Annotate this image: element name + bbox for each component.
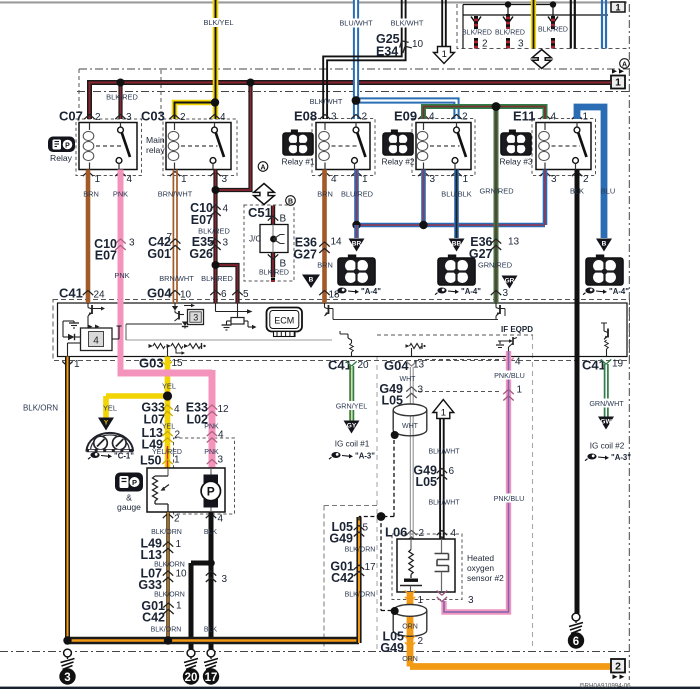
ECM driver box 3	[174, 303, 176, 306]
pin mark C41-20	[346, 361, 356, 366]
svg-text:3: 3	[331, 112, 337, 123]
svg-text:6: 6	[573, 636, 579, 648]
svg-text:IG coil #1: IG coil #1	[335, 440, 370, 449]
connector mark PNK-3	[207, 460, 217, 465]
wire BLK/RED branch to ECM-5	[216, 265, 238, 303]
svg-text:2: 2	[419, 528, 425, 539]
pin mark E11-1	[572, 115, 582, 120]
harness border bottom	[0, 651, 629, 653]
svg-text:G49: G49	[329, 532, 353, 546]
connector C10/E07-3 on PNK	[115, 239, 125, 244]
BLK/RED stub wire 2b	[506, 38, 510, 49]
fan motor icon 2	[448, 255, 455, 258]
svg-text:BLK/ORN: BLK/ORN	[345, 592, 376, 599]
wire BLK pair top-right	[570, 0, 572, 49]
relay E08 internals	[324, 123, 326, 131]
svg-text:G26: G26	[189, 247, 213, 261]
pin mark ECM-3	[491, 291, 501, 296]
svg-text:4: 4	[174, 404, 180, 415]
junction C03-3/bus drop	[212, 186, 220, 194]
wire BLK E11-2 to ground 6	[575, 170, 580, 614]
svg-text:gauge: gauge	[117, 502, 141, 512]
pin mark G04-10	[170, 291, 180, 296]
svg-text:10: 10	[180, 290, 192, 301]
svg-text:PNK: PNK	[204, 424, 219, 431]
wire GRN/RED overlay at crossover	[494, 218, 499, 232]
svg-text:3: 3	[126, 112, 132, 123]
box 2 orange end	[611, 659, 625, 673]
connector G01/C42-1	[163, 603, 173, 608]
circled A top-right	[620, 59, 630, 69]
svg-text:2: 2	[615, 661, 621, 673]
connector sensor-1 marks	[405, 597, 415, 602]
wire ORN sensor-1 out	[410, 592, 611, 667]
relay E09 box	[416, 123, 471, 170]
relay C03 internals	[174, 123, 176, 131]
pin mark E11-3	[540, 172, 550, 177]
page bottom rule	[0, 687, 700, 689]
double arrow updown C51	[254, 184, 275, 205]
svg-text:20: 20	[358, 360, 370, 371]
ECM dashed border	[53, 300, 630, 361]
svg-text:3: 3	[418, 385, 424, 396]
wire BLK/YEL feeder	[213, 0, 219, 119]
svg-text:C42: C42	[331, 571, 354, 585]
dashed box fuel pump assy	[174, 438, 235, 514]
connector L06-2 marks	[406, 531, 416, 536]
svg-text:4: 4	[127, 174, 133, 185]
combination meter icon	[87, 433, 134, 451]
svg-text:3: 3	[193, 312, 198, 322]
connector L07/G33-10	[163, 571, 173, 576]
connector sensor-3 marks	[437, 597, 447, 602]
ECM IG1 driver	[340, 334, 348, 338]
svg-text:17: 17	[365, 562, 377, 573]
eye ref IG1 A-3	[331, 452, 340, 458]
wire BLU/RED E11-3 down	[543, 170, 548, 226]
ground symbol 6	[572, 613, 580, 621]
harness border right vertical	[628, 4, 630, 680]
svg-text:BLK/RED: BLK/RED	[495, 29, 525, 36]
sensor heater resistor	[410, 539, 412, 550]
pin mark E09-1	[451, 172, 461, 177]
svg-text:B: B	[602, 241, 607, 248]
svg-text:G03: G03	[139, 356, 164, 371]
svg-text:"A-4": "A-4"	[461, 287, 481, 296]
svg-text:BLU/WHT: BLU/WHT	[339, 19, 373, 28]
wire BLK/RED C51	[271, 206, 275, 278]
harness border A top	[79, 68, 629, 70]
dashed box relay C07	[76, 119, 142, 176]
junction YEL	[163, 391, 172, 400]
junction BLU/WHT	[352, 96, 361, 105]
connector BLK-3 chevrons	[206, 571, 216, 576]
svg-text:4: 4	[93, 336, 99, 347]
relay C07 box	[79, 123, 137, 170]
junction fan bus at E09	[419, 221, 427, 229]
svg-text:1: 1	[74, 359, 80, 370]
wire PNK elbow to pump	[118, 370, 213, 468]
svg-text:3: 3	[518, 39, 524, 50]
pin mark E09-3	[418, 172, 428, 177]
pin mark E08-1	[351, 172, 361, 177]
wire BLK/YEL top-right	[531, 0, 536, 49]
sensor element	[441, 539, 443, 553]
svg-text:GRN/RED: GRN/RED	[479, 187, 513, 196]
ECM pin5 resistor to ground	[237, 303, 239, 318]
svg-text:BLK/ORN: BLK/ORN	[151, 627, 182, 634]
top-right bus line upper	[463, 4, 553, 6]
connector L13/L49-2 on YEL	[162, 432, 172, 437]
connector PNK/BLU-1	[503, 390, 513, 395]
svg-text:ORN: ORN	[402, 656, 418, 663]
svg-text:17: 17	[205, 672, 218, 684]
pin mark C03-2	[169, 115, 179, 120]
connector mark C51 bottom	[268, 254, 278, 259]
junction GRN/RED	[492, 102, 501, 111]
ECM transistor at ECM-3	[495, 304, 497, 308]
connector mark L50-1	[162, 460, 172, 465]
svg-text:6: 6	[221, 289, 227, 300]
pin mark C41-18	[319, 291, 329, 296]
double arrow updown top-right	[532, 50, 551, 69]
wire BLU/WHT feeder	[353, 0, 359, 119]
svg-text:YEL: YEL	[103, 404, 117, 413]
circled B near C51	[286, 196, 296, 206]
relay E09 internals	[423, 123, 425, 131]
svg-text:BLK/WHT: BLK/WHT	[428, 500, 460, 507]
arrow onto BLK/RED stub x508	[503, 17, 513, 24]
eye ref fan1 A-4	[337, 288, 346, 294]
dashed box relay E08	[312, 119, 375, 176]
relay E11 internals	[544, 123, 546, 131]
svg-text:1: 1	[362, 174, 368, 185]
ECM label icon	[267, 308, 303, 332]
svg-text:Main: Main	[146, 135, 165, 145]
connector E36/G27-13 on GRN/RED	[491, 239, 501, 244]
ECM transistor at C41-24	[87, 304, 89, 308]
svg-text:PNK: PNK	[113, 190, 128, 199]
wire BLU/WHT branch to E09-2	[356, 101, 457, 120]
svg-text:"C-1": "C-1"	[114, 452, 134, 461]
svg-text:7: 7	[167, 232, 173, 243]
junction BLK/YEL	[211, 98, 219, 106]
relay C07 internals	[89, 123, 91, 131]
dashed box oxygen sensor	[392, 534, 462, 600]
wire BLU/RED E08-1 down	[354, 170, 359, 226]
svg-text:GR: GR	[505, 278, 515, 285]
connector C42/G01-7 on BRN/WHT	[170, 239, 180, 244]
svg-text:13: 13	[508, 237, 520, 248]
wire GRN/RED drop to ECM-3	[494, 107, 499, 304]
svg-text:P: P	[207, 484, 215, 498]
svg-text:E08: E08	[294, 109, 317, 124]
shield drain dot 1	[391, 431, 399, 439]
wire YEL branch to gauge	[106, 396, 170, 418]
box 1 bus end	[611, 76, 625, 89]
ECM heater resistor chain	[149, 344, 154, 348]
junction BLK pump ground	[207, 559, 215, 567]
svg-text:5: 5	[363, 523, 369, 534]
wire BLK/RED C03-3 to ECM-6	[213, 170, 217, 304]
pin mark C07-1	[83, 172, 93, 177]
connector E36/G27-14 on BRN	[319, 242, 329, 247]
connector C10/E07-4 on BLK/RED	[210, 205, 220, 210]
wire stub to fan 1	[354, 225, 359, 238]
ground symbol 17	[207, 649, 215, 657]
connector PNK-4 chevrons	[207, 432, 217, 437]
tank harness border x324	[324, 506, 377, 651]
svg-text:10: 10	[176, 569, 188, 580]
svg-text:4: 4	[220, 112, 226, 123]
svg-text:G01: G01	[147, 247, 171, 261]
svg-text:C41: C41	[582, 358, 606, 373]
svg-text:"A-4": "A-4"	[361, 287, 381, 296]
wire GRN/WHT C41-19	[604, 364, 606, 417]
svg-text:G49: G49	[380, 641, 404, 655]
wire GRN/RED E09-4 E11-4 link	[424, 107, 546, 120]
pin mark E08-4	[319, 172, 329, 177]
dashed box connector C51	[244, 205, 294, 281]
svg-text:3: 3	[129, 238, 135, 249]
pin mark pump-4	[206, 514, 216, 519]
stub BLK/RED C51 end	[271, 278, 275, 283]
junction bus mid	[164, 636, 172, 644]
svg-text:BLK/WHT: BLK/WHT	[391, 19, 424, 28]
svg-text:L06: L06	[385, 525, 407, 540]
arrows to bus box	[612, 69, 617, 74]
pin mark pump-2	[163, 514, 173, 519]
junction box J/C	[260, 225, 288, 253]
svg-text:14: 14	[331, 237, 343, 248]
svg-text:PNK: PNK	[114, 271, 129, 280]
svg-text:IF EQPD: IF EQPD	[501, 325, 533, 334]
dashed box relay E09	[412, 119, 475, 176]
svg-text:P: P	[132, 478, 137, 487]
wire BLU E11-1 loop to fan3	[577, 107, 604, 238]
connector E33/L02-12 on PNK	[207, 405, 217, 410]
svg-text:PNK/BLU: PNK/BLU	[494, 371, 525, 380]
wire BLK/ORN ground bus	[65, 637, 359, 645]
svg-text:"A-4": "A-4"	[609, 287, 629, 296]
svg-text:BLK/RED: BLK/RED	[462, 29, 492, 36]
junction top-right x553	[550, 1, 556, 7]
svg-text:G04: G04	[147, 286, 172, 301]
ECM driver box 4	[67, 343, 69, 357]
wire BLK/RED bus	[90, 83, 612, 120]
wire BLK pump-4 to ground 17	[209, 512, 214, 649]
wire BRN/WHT C03-1 to G04-10	[172, 170, 174, 304]
pin mark E09-2	[451, 115, 461, 120]
BLK/RED stub wire 1b	[474, 38, 478, 49]
svg-text:13: 13	[413, 360, 425, 371]
top-right bus left drop	[462, 5, 464, 49]
svg-text:1: 1	[441, 407, 446, 418]
svg-text:BRN/WHT: BRN/WHT	[159, 274, 194, 283]
ECM internal rail link	[125, 324, 127, 340]
svg-text:3: 3	[64, 672, 70, 684]
svg-text:Relay #3: Relay #3	[499, 157, 532, 167]
svg-text:2: 2	[175, 430, 181, 441]
fuel pump relay icon	[48, 137, 75, 153]
svg-text:2: 2	[174, 514, 180, 525]
pin mark E08-2	[351, 115, 361, 120]
label GRN/YEL	[334, 401, 370, 410]
label BLK/WHT top	[389, 19, 426, 28]
wire BLK/RED drop to C07-3	[118, 83, 122, 120]
svg-text:1: 1	[95, 174, 101, 185]
pin mark C41-24	[83, 291, 93, 296]
svg-text:G27: G27	[293, 248, 317, 262]
svg-text:4: 4	[218, 514, 224, 525]
svg-text:YEL: YEL	[162, 424, 175, 431]
svg-text:4: 4	[451, 528, 457, 539]
node stub drop x553	[552, 5, 554, 18]
svg-text:BLU/BLK: BLU/BLK	[441, 190, 471, 199]
label PNK/BLU upper	[492, 371, 526, 380]
pin mark E09-4	[418, 115, 428, 120]
wire PNK/BLU to sensor-3	[444, 351, 509, 612]
wire BLK/WHT pair to arrow 1	[441, 0, 443, 47]
ECM solid border	[58, 303, 628, 357]
svg-text:3: 3	[222, 174, 228, 185]
svg-text:2: 2	[362, 112, 368, 123]
ECM IG2 driver	[601, 323, 607, 327]
marker B triangle near C51	[302, 275, 320, 289]
svg-text:BLK/ORN: BLK/ORN	[154, 592, 185, 599]
wire BLK/ORN pump-2 to bus	[166, 512, 169, 643]
svg-text:BR: BR	[352, 241, 362, 248]
svg-text:2: 2	[583, 174, 589, 185]
svg-text:"A-3": "A-3"	[355, 452, 375, 461]
arrows below box 2	[613, 675, 618, 680]
svg-text:C07: C07	[59, 109, 83, 124]
svg-text:20: 20	[185, 672, 198, 684]
svg-text:E34: E34	[376, 45, 398, 59]
dashed box relay C03	[163, 119, 237, 176]
svg-text:Y: Y	[104, 420, 109, 427]
svg-text:YEL: YEL	[162, 382, 176, 391]
wire BLK/RED drop to C03-3	[216, 83, 251, 191]
fuel pump icon	[115, 473, 143, 492]
svg-text:Relay: Relay	[50, 153, 73, 163]
svg-text:B: B	[288, 198, 293, 205]
radiator fan relay icon 1	[291, 130, 297, 133]
label BLU/WHT	[338, 19, 374, 28]
ECM internal rail upper	[333, 319, 498, 321]
svg-text:10: 10	[412, 39, 424, 50]
svg-text:GRN/YEL: GRN/YEL	[336, 402, 368, 411]
marker BB triangle	[449, 239, 465, 252]
svg-text:BLK/WHT: BLK/WHT	[310, 97, 343, 106]
node stub drop x508	[507, 5, 509, 17]
svg-text:BLK: BLK	[204, 529, 218, 536]
pin mark C41-19	[601, 359, 611, 364]
label BLK/YEL	[201, 18, 236, 27]
svg-text:BLK/WHT: BLK/WHT	[428, 449, 460, 456]
J/C internal node	[272, 225, 274, 253]
dashed stub above C03	[160, 70, 162, 119]
connector L49/L13-1	[163, 542, 173, 547]
svg-text:BLK/ORN: BLK/ORN	[151, 529, 182, 536]
connector L05/G49-2	[405, 642, 415, 647]
svg-text:L13: L13	[140, 548, 162, 562]
svg-text:24: 24	[94, 290, 106, 301]
label PNK/BLU lower	[492, 494, 526, 503]
svg-text:A: A	[622, 61, 627, 68]
wire YEL G03-15 net	[165, 357, 171, 469]
svg-text:C41: C41	[59, 286, 83, 301]
svg-text:1: 1	[174, 455, 180, 466]
ECM internal rail lower	[126, 339, 332, 341]
svg-text:6: 6	[449, 466, 455, 477]
box 1 top-right	[611, 2, 625, 12]
top-right bus line lower	[463, 14, 608, 16]
harness border A left edge	[78, 69, 80, 112]
svg-text:G27: G27	[469, 247, 493, 261]
svg-text:I5RH0A910994-06: I5RH0A910994-06	[579, 683, 631, 689]
connector G01/C42-17	[354, 565, 364, 570]
wire BRN C07-1 to C41-24	[86, 170, 91, 304]
oxygen sensor box	[397, 539, 455, 592]
pin mark E11-2	[572, 172, 582, 177]
pin mark E11-4	[540, 115, 550, 120]
dashed link G49/L05-3 to PNK/BLU-1	[418, 391, 502, 393]
svg-text:1: 1	[442, 49, 447, 60]
shield cylinder ORN	[392, 610, 394, 630]
wire BLU/RED crossover	[357, 223, 546, 228]
ECM IF-EQPD transistor	[498, 341, 504, 344]
svg-text:BLU/RED: BLU/RED	[341, 190, 373, 199]
svg-text:4: 4	[218, 430, 224, 441]
wire BLK/YEL branch to C03-2	[175, 103, 219, 120]
ground symbol 3	[64, 649, 72, 657]
shield drain dot 2	[391, 607, 399, 615]
shield drain dashed path	[359, 440, 394, 611]
dashed box relay E11	[532, 119, 596, 176]
svg-text:4: 4	[551, 112, 557, 123]
page top rule	[0, 1, 627, 3]
svg-text:BB: BB	[452, 241, 462, 248]
svg-text:C03: C03	[141, 109, 165, 124]
svg-text:3: 3	[551, 174, 557, 185]
wire BRN E08-4 to C41-18	[322, 170, 327, 304]
marker GY triangle	[344, 421, 360, 434]
svg-text:3: 3	[218, 455, 224, 466]
svg-text:Heated: Heated	[467, 553, 494, 563]
svg-text:E09: E09	[394, 109, 417, 124]
connector L05/G49-5	[354, 526, 364, 531]
svg-text:5: 5	[243, 289, 249, 300]
svg-text:WHT: WHT	[402, 423, 419, 430]
svg-text:IG coil #2: IG coil #2	[590, 442, 625, 451]
svg-text:12: 12	[218, 404, 230, 415]
svg-text:GY: GY	[347, 423, 357, 430]
svg-text:B: B	[280, 214, 287, 225]
marker B triangle fan3	[596, 239, 612, 252]
svg-text:BLU: BLU	[601, 187, 615, 196]
svg-text:A: A	[260, 164, 265, 171]
svg-text:B: B	[309, 277, 314, 284]
svg-text:C42: C42	[142, 611, 165, 625]
pin mark G03-15	[162, 361, 172, 366]
svg-text:oxygen: oxygen	[467, 563, 494, 573]
relay C03 box	[166, 123, 231, 170]
wire BLU pair top-right	[601, 0, 603, 49]
svg-text:BLK/YEL: BLK/YEL	[204, 18, 234, 27]
svg-text:2: 2	[95, 112, 101, 123]
svg-text:GRN/WHT: GRN/WHT	[589, 399, 624, 408]
